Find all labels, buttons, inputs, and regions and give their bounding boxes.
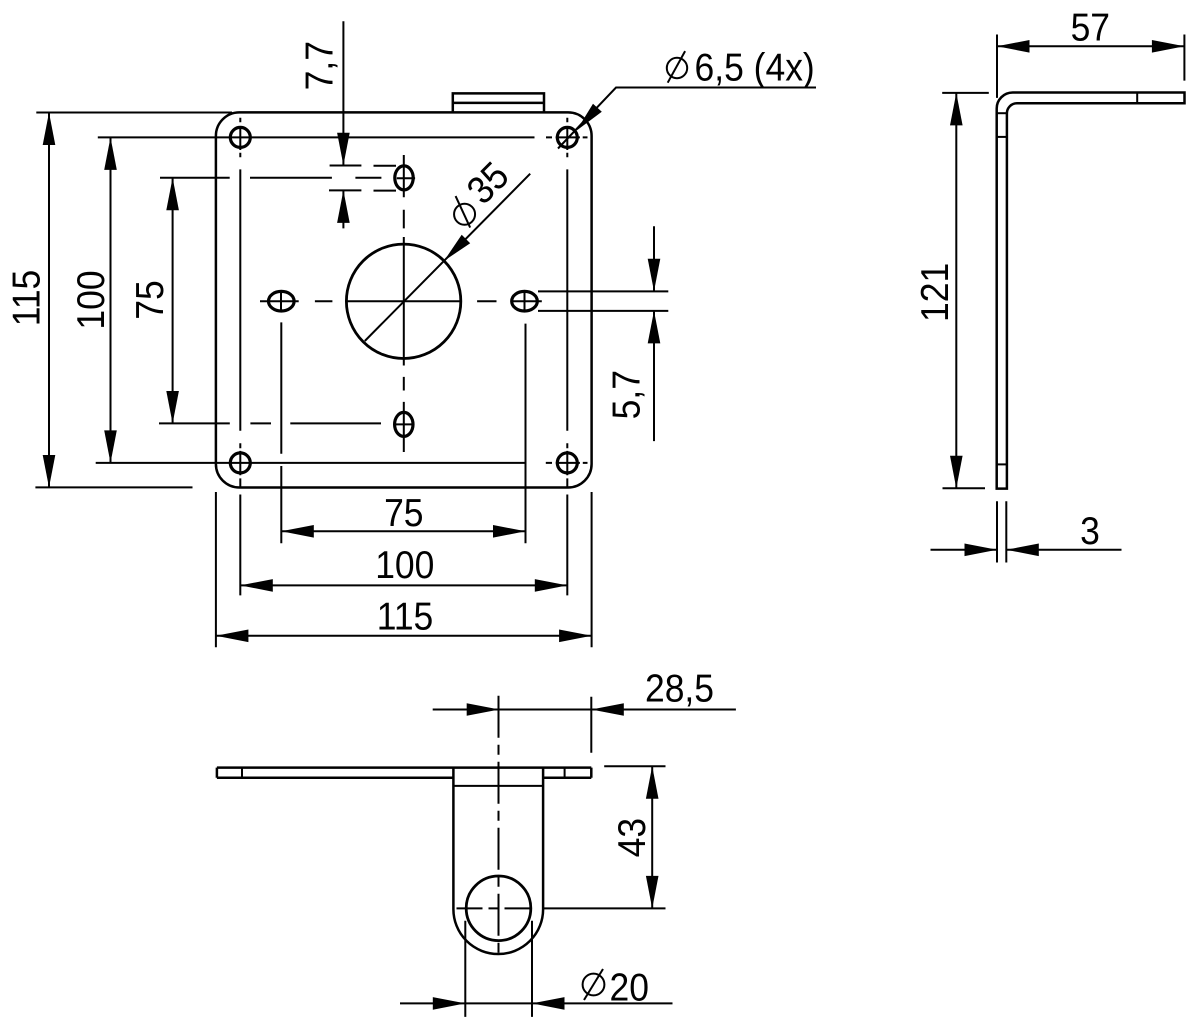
corner hole top-left	[230, 127, 250, 147]
svg-text:7,7: 7,7	[297, 41, 341, 90]
svg-text:3: 3	[1080, 508, 1100, 552]
bracket bend line	[453, 785, 543, 787]
slot hole right	[512, 291, 538, 311]
centerline column through right corner holes	[566, 118, 568, 596]
L-profile outline	[997, 93, 1185, 489]
extension line right slot to bottom	[525, 324, 527, 544]
center hole Ø35	[346, 244, 460, 358]
extension lines plate edges to bottom	[216, 492, 592, 647]
hole Ø20	[466, 876, 531, 941]
svg-text:57: 57	[1071, 5, 1110, 49]
dimension 57	[997, 5, 1184, 98]
extension line left slot to bottom	[280, 322, 282, 543]
corner hole bottom-right	[557, 453, 577, 473]
bracket outline (bottom view)	[453, 768, 543, 954]
extension line 43	[543, 766, 666, 908]
dimension 7,7 top	[297, 21, 396, 228]
svg-text:115: 115	[377, 594, 434, 638]
vertical centerline through center hole	[403, 155, 405, 452]
leader Ø35	[365, 153, 530, 341]
svg-text:75: 75	[384, 490, 423, 534]
bend tangent tick	[997, 112, 1007, 114]
hole tick lower (side view)	[997, 463, 1007, 465]
dimension 75 left	[127, 178, 381, 424]
dimension 43	[609, 766, 658, 908]
corner hole top-right	[557, 127, 577, 147]
centerline column through left corner holes	[239, 118, 241, 596]
svg-text:100: 100	[375, 542, 434, 586]
hole tick left (bottom view)	[241, 768, 243, 778]
tab tick (side view)	[1136, 93, 1138, 104]
dimension 28,5	[433, 666, 736, 753]
hole tick upper (side view)	[997, 136, 1007, 138]
svg-text:20: 20	[610, 965, 649, 1009]
svg-text:121: 121	[912, 263, 956, 322]
svg-text:43: 43	[609, 818, 653, 857]
dimension 115 bottom	[216, 594, 592, 642]
dimension 121	[912, 93, 988, 488]
leader Ø6,5 (4x)	[558, 45, 816, 149]
slot hole left	[269, 291, 295, 311]
dimension 100 bottom	[240, 542, 567, 591]
hole tick right (bottom view)	[564, 768, 566, 778]
svg-text:100: 100	[68, 270, 112, 329]
vertical centerline (bottom view)	[498, 696, 500, 955]
horizontal centerline through center hole	[260, 300, 542, 302]
slot hole top	[395, 166, 415, 190]
svg-text:28,5: 28,5	[645, 666, 714, 710]
dimension 75 bottom	[281, 490, 525, 537]
horizontal centerline through Ø20	[457, 907, 534, 909]
tab at top edge	[453, 93, 544, 112]
svg-text:6,5 (4x): 6,5 (4x)	[695, 45, 815, 89]
slot hole bottom	[395, 412, 414, 436]
dimension 3	[931, 501, 1122, 562]
corner hole bottom-left	[230, 453, 250, 473]
svg-text:75: 75	[127, 280, 171, 319]
plate section outline	[217, 768, 591, 778]
svg-text:115: 115	[4, 270, 48, 327]
dimension 100 left	[68, 137, 116, 463]
centerline row through bottom corner holes	[96, 462, 588, 464]
svg-text:5,7: 5,7	[604, 370, 648, 419]
centerline row through top corner holes	[98, 136, 588, 138]
dimension 115 left	[4, 113, 232, 488]
plate outline	[216, 112, 592, 487]
dimension 5,7 right	[538, 226, 668, 441]
dimension Ø20	[400, 921, 673, 1017]
